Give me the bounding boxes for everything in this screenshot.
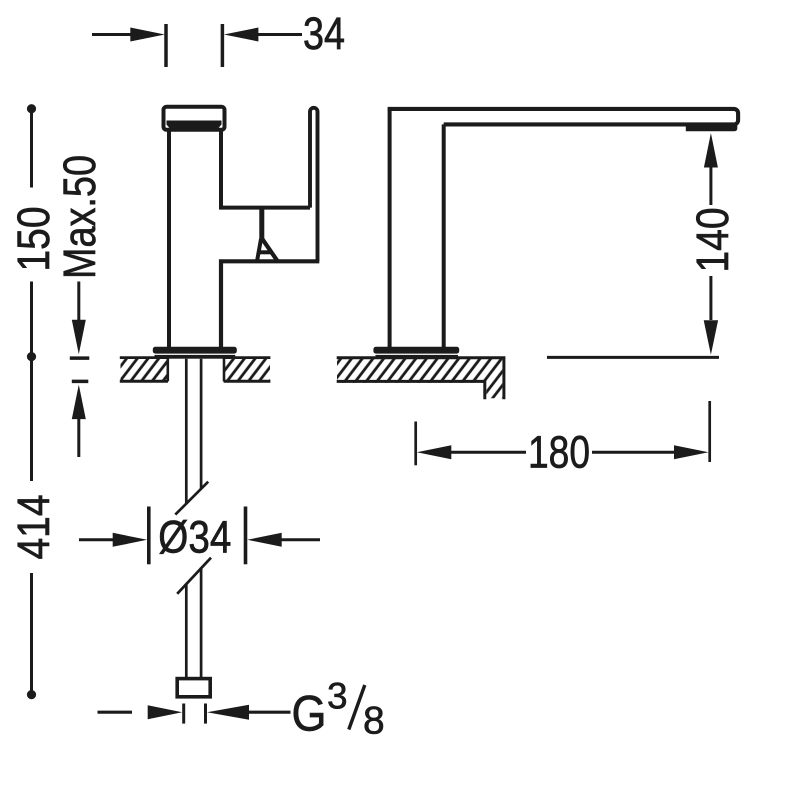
svg-text:Ø34: Ø34	[158, 512, 231, 563]
svg-text:8: 8	[363, 700, 385, 743]
svg-text:150: 150	[8, 207, 59, 272]
svg-text:414: 414	[8, 495, 59, 560]
svg-text:G: G	[292, 685, 327, 742]
svg-text:34: 34	[303, 8, 345, 59]
svg-text:Max.50: Max.50	[54, 155, 105, 279]
svg-text:3: 3	[327, 676, 348, 717]
svg-text:140: 140	[687, 208, 738, 273]
svg-text:180: 180	[528, 427, 590, 478]
